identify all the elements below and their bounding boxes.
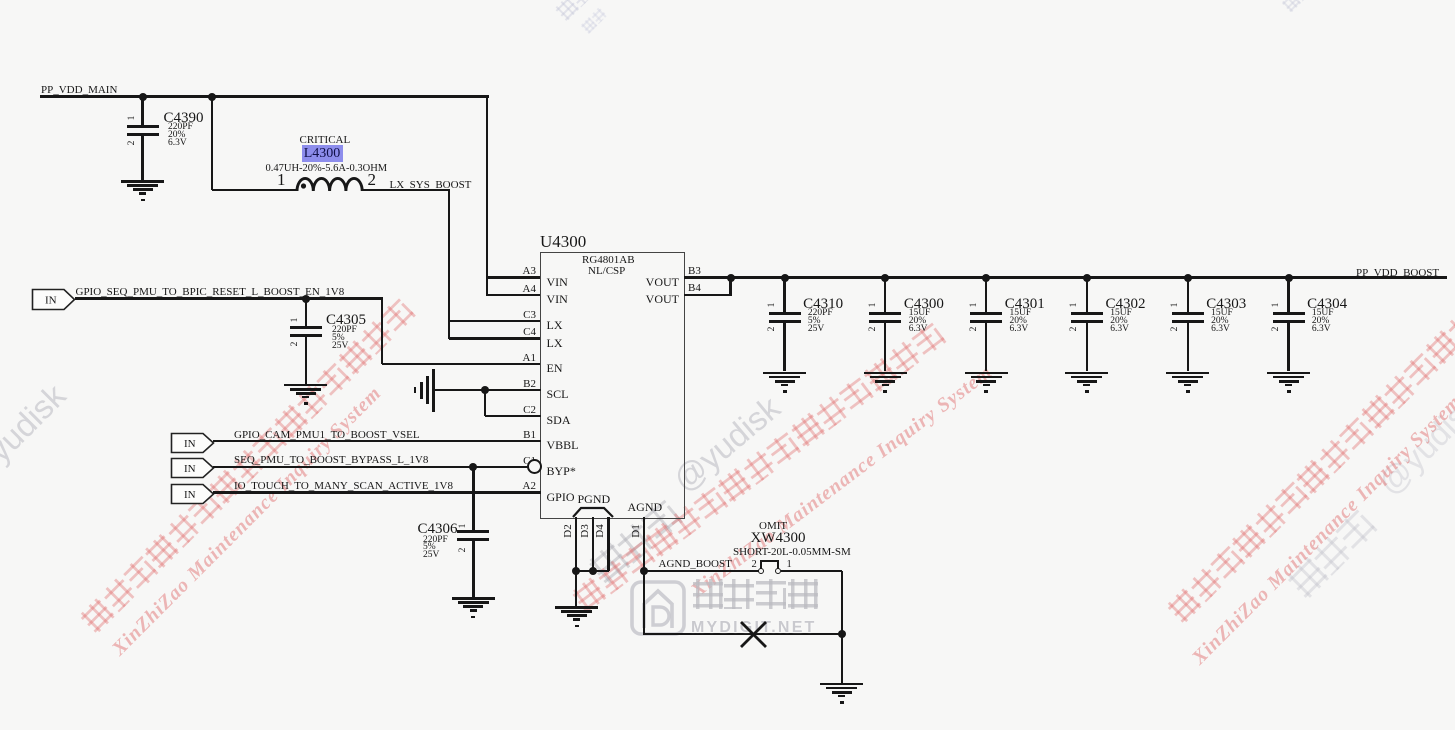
value SHORT-20L-0.05MM-SM	[733, 547, 851, 559]
junction	[982, 274, 990, 282]
ground	[0, 0, 1, 1]
part NL/CSP	[588, 266, 625, 278]
ground	[0, 0, 1, 1]
value C4303	[1211, 310, 1233, 333]
wire	[305, 299, 307, 326]
junction	[302, 295, 310, 303]
wire	[448, 190, 450, 339]
junction	[139, 93, 147, 101]
wire EN net	[75, 297, 384, 299]
value C4300	[909, 310, 931, 333]
ground	[0, 0, 1, 1]
wire	[760, 560, 779, 562]
junction	[1285, 274, 1293, 282]
junction	[1184, 274, 1192, 282]
wire to pin A3	[487, 276, 541, 278]
capacitor C4306 plates	[457, 530, 489, 533]
pin C3	[509, 310, 536, 322]
inductor L4300	[295, 174, 367, 193]
label CRITICAL	[300, 135, 351, 147]
net GPIO_CAM_PMU1_TO_BOOST_VSEL	[234, 430, 420, 442]
wire	[141, 136, 143, 180]
input flag IN	[170, 432, 215, 454]
pin name GPIO	[547, 491, 575, 504]
wire	[783, 323, 785, 372]
pin name VIN	[547, 276, 568, 289]
wire to ground	[841, 634, 843, 683]
value C4301	[1010, 310, 1032, 333]
no-connect X mark	[737, 618, 770, 651]
label C4306	[418, 522, 458, 538]
wire	[141, 97, 143, 125]
wire	[777, 561, 779, 571]
pin name VOUT	[637, 293, 679, 306]
value C4302	[1110, 310, 1132, 333]
watermark top stamp 1	[554, 0, 613, 26]
wire	[1086, 323, 1088, 372]
capacitor C4300 plates	[869, 312, 901, 315]
pin 2	[128, 133, 142, 153]
pin B1	[509, 430, 536, 442]
wire	[1287, 278, 1289, 312]
pin 2	[1070, 319, 1084, 339]
label C4304	[1307, 297, 1347, 313]
ground	[0, 0, 1, 1]
capacitor C4301 plates	[970, 312, 1002, 315]
wire to pin A1	[382, 363, 540, 365]
watermark red latin band	[1188, 391, 1455, 670]
pin 1	[787, 559, 792, 570]
watermark 数码之家	[692, 579, 818, 621]
capacitor C4304 plates	[1273, 312, 1305, 315]
ground	[0, 0, 1, 1]
watermark gray band 3 (XinZhiZao @yudisk)	[1284, 507, 1387, 610]
capacitor C4303 plates	[1172, 312, 1204, 315]
wire	[760, 561, 762, 571]
pin name VIN	[547, 293, 568, 306]
wire jumper to right	[781, 570, 842, 572]
junction	[838, 630, 846, 638]
pin 1	[1070, 295, 1084, 315]
pin 2	[1272, 319, 1286, 339]
watermark red CJK band 2	[569, 319, 955, 622]
wire	[472, 541, 474, 597]
wire	[644, 633, 842, 635]
junction	[781, 274, 789, 282]
net GPIO_SEQ_PMU_TO_BPIC_RESET_L_BOOST_EN_1V8	[76, 287, 345, 299]
ground	[0, 0, 1, 1]
pin C2	[509, 405, 536, 417]
junction	[589, 567, 597, 575]
pin name BYP*	[547, 465, 576, 478]
PGND bracket	[572, 506, 614, 518]
pin 1	[277, 171, 286, 189]
capacitor C4390 plates	[127, 125, 159, 128]
watermark red CJK band 3	[1164, 285, 1455, 633]
watermark MYDIGIT.NET	[691, 619, 817, 637]
pin name VBBL	[547, 439, 579, 452]
wire	[1187, 278, 1189, 312]
pin D2	[563, 521, 577, 541]
wire AGND_BOOST	[644, 570, 761, 572]
label C4310	[803, 297, 843, 313]
wire EN down	[381, 299, 383, 365]
pin 2	[291, 334, 305, 354]
label C4302	[1106, 297, 1146, 313]
pin 2	[768, 319, 782, 339]
pin name EN	[547, 362, 563, 375]
junction	[1083, 274, 1091, 282]
label L4300 highlighted	[302, 145, 343, 163]
watermark red latin band	[108, 382, 387, 661]
pin 1	[768, 295, 782, 315]
pin 1	[1272, 295, 1286, 315]
pin 2	[1171, 319, 1185, 339]
wire GPIO net	[213, 491, 541, 493]
op-amp U4300 IC body	[540, 252, 686, 519]
ground	[0, 0, 1, 1]
wire	[1287, 323, 1289, 372]
wire	[985, 278, 987, 312]
pin D3	[580, 521, 594, 541]
wire pin B4	[684, 294, 732, 296]
pin 2	[368, 171, 377, 189]
junction	[727, 274, 735, 282]
pin name LX	[547, 337, 563, 350]
wire	[783, 278, 785, 312]
wire	[472, 467, 474, 531]
label C4390	[164, 111, 204, 127]
wire down	[841, 571, 843, 634]
label U4300	[540, 233, 586, 251]
watermark top stamp 2	[1281, 0, 1328, 16]
ground	[0, 0, 1, 1]
wire BYP net	[213, 466, 528, 468]
wire	[985, 323, 987, 372]
ground	[0, 0, 1, 1]
capacitor C4305 plates	[290, 326, 322, 329]
value C4390	[168, 124, 193, 147]
pin D4	[595, 521, 609, 541]
ground	[0, 0, 1, 1]
wire	[607, 517, 609, 571]
wire to pin C2 SDA	[485, 415, 541, 417]
pin A2	[509, 481, 536, 493]
pin name PGND	[578, 493, 611, 506]
pin A4	[509, 284, 536, 296]
junction	[208, 93, 216, 101]
wire	[212, 189, 298, 191]
svg-text:IN: IN	[45, 295, 57, 307]
net SEQ_PMU_TO_BOOST_BYPASS_L_1V8	[234, 455, 428, 467]
pin 2	[459, 540, 473, 560]
wire to pin C4	[449, 337, 541, 339]
wire	[305, 337, 307, 384]
svg-text:IN: IN	[184, 489, 196, 501]
input flag IN	[170, 483, 215, 505]
pin 2	[869, 319, 883, 339]
label XW4300	[751, 531, 806, 547]
label C4300	[904, 297, 944, 313]
wire	[1187, 323, 1189, 372]
label C4303	[1206, 297, 1246, 313]
value C4310	[808, 310, 833, 333]
wire down to VIN pins	[486, 97, 488, 297]
value C4305	[332, 327, 357, 350]
wire	[576, 570, 609, 572]
wire to pin B2 SCL	[485, 389, 541, 391]
input flag IN	[31, 288, 76, 311]
pin D1	[631, 521, 645, 541]
wire to ground	[575, 571, 577, 606]
wire	[684, 276, 1448, 279]
wire	[1086, 278, 1088, 312]
input flag IN	[170, 457, 215, 479]
wire	[884, 278, 886, 312]
svg-text:IN: IN	[184, 463, 196, 475]
pin A3	[509, 266, 536, 278]
pin 1	[291, 310, 305, 330]
signal ground (rotated)	[432, 369, 435, 412]
junction	[469, 463, 477, 471]
value L4300	[266, 163, 388, 174]
pin 1	[970, 295, 984, 315]
pin 1	[869, 295, 883, 315]
wire down	[643, 571, 645, 636]
net AGND_BOOST	[659, 559, 732, 571]
junction	[640, 567, 648, 575]
wire B4 up	[729, 278, 731, 296]
pin name LX	[547, 319, 563, 332]
pin B3	[688, 266, 701, 278]
wire down	[484, 390, 486, 416]
value C4304	[1312, 310, 1334, 333]
MYDIGIT watermark logo	[629, 579, 687, 637]
pin name AGND	[628, 501, 663, 514]
net PP_VDD_MAIN	[41, 85, 117, 97]
watermark gray band 2 (XinZhiZao @yudisk)	[586, 498, 692, 597]
label OMIT	[759, 521, 787, 533]
net LX_SYS_BOOST	[390, 180, 472, 192]
wire ground stub	[434, 389, 486, 391]
jumper pin circles	[758, 568, 764, 574]
part number RG4801AB	[582, 255, 635, 267]
pin 2	[752, 559, 757, 570]
capacitor C4310 plates	[769, 312, 801, 315]
wire	[575, 517, 577, 571]
wire	[211, 97, 213, 190]
pin 1	[128, 108, 142, 128]
wire PP_VDD_MAIN rail	[40, 95, 489, 97]
wire	[643, 517, 645, 571]
BYP* open circle	[527, 459, 542, 474]
pin 2	[970, 319, 984, 339]
svg-text:IN: IN	[184, 438, 196, 450]
pin name SCL	[547, 388, 569, 401]
pin C1	[509, 456, 536, 468]
wire to pin C3	[449, 320, 541, 322]
capacitor C4302 plates	[1071, 312, 1103, 315]
pin 1	[1171, 295, 1185, 315]
watermark red CJK band 1	[77, 295, 425, 643]
ground	[0, 0, 1, 1]
net PP_VDD_BOOST	[1356, 268, 1439, 280]
pin B2	[509, 379, 536, 391]
pin C4	[509, 327, 536, 339]
wire VBBL net	[213, 440, 541, 442]
wire	[592, 517, 594, 571]
pin 1	[459, 516, 473, 536]
junction	[881, 274, 889, 282]
pin B4	[688, 283, 701, 295]
pin A1	[509, 353, 536, 365]
wire	[363, 189, 451, 191]
pin name SDA	[547, 414, 571, 427]
wire to pin A4	[487, 294, 541, 296]
net IO_TOUCH_TO_MANY_SCAN_ACTIVE_1V8	[234, 481, 453, 493]
label C4305	[326, 313, 366, 329]
value C4306	[423, 537, 448, 560]
label C4301	[1005, 297, 1045, 313]
watermark red latin band	[687, 361, 997, 603]
pin name VOUT	[637, 276, 679, 289]
junction	[572, 567, 580, 575]
junction	[481, 386, 489, 394]
wire	[884, 323, 886, 372]
